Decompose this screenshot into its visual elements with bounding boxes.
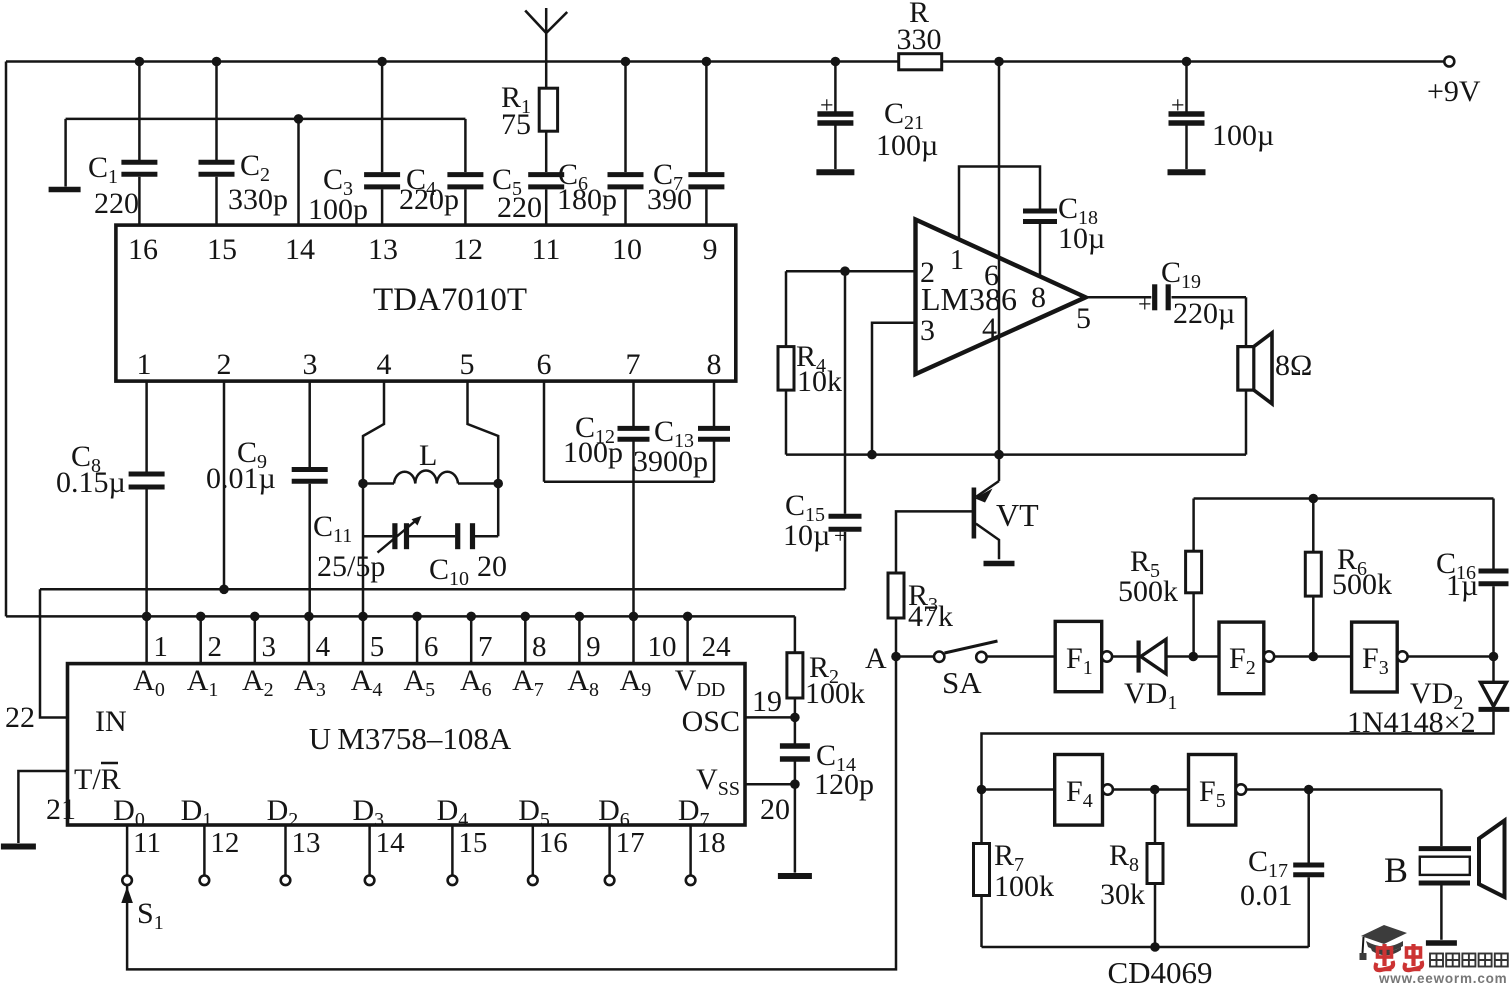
svg-text:100p: 100p (308, 193, 368, 226)
svg-text:120p: 120p (814, 768, 874, 801)
svg-text:100k: 100k (805, 677, 865, 710)
svg-text:100µ: 100µ (1212, 119, 1274, 152)
svg-text:17: 17 (616, 827, 645, 859)
svg-text:20: 20 (760, 793, 790, 826)
svg-text:220p: 220p (399, 183, 459, 216)
svg-text:7: 7 (478, 631, 493, 663)
svg-text:12: 12 (453, 233, 483, 266)
svg-text:10µ: 10µ (783, 519, 830, 552)
svg-text:2: 2 (217, 348, 232, 381)
svg-text:0.15µ: 0.15µ (56, 466, 126, 499)
svg-text:7: 7 (626, 348, 641, 381)
svg-text:220: 220 (497, 191, 542, 224)
svg-text:3: 3 (262, 631, 277, 663)
svg-text:4: 4 (982, 312, 997, 345)
svg-text:180p: 180p (557, 183, 617, 216)
svg-text:390: 390 (647, 183, 692, 216)
svg-text:330p: 330p (228, 183, 288, 216)
svg-text:500k: 500k (1118, 575, 1178, 608)
svg-text:+: + (820, 93, 834, 119)
svg-text:0.01µ: 0.01µ (206, 462, 276, 495)
svg-text:5: 5 (370, 631, 385, 663)
svg-text:3900p: 3900p (633, 445, 708, 478)
svg-text:13: 13 (368, 233, 398, 266)
svg-text:10k: 10k (797, 365, 842, 398)
svg-text:+: + (1138, 292, 1152, 318)
svg-text:6: 6 (424, 631, 439, 663)
svg-text:5: 5 (460, 348, 475, 381)
svg-text:330: 330 (897, 23, 942, 56)
svg-text:4: 4 (316, 631, 331, 663)
svg-text:22: 22 (5, 701, 35, 734)
svg-text:L: L (419, 439, 437, 472)
svg-text:220: 220 (94, 187, 139, 220)
svg-text:TDA7010T: TDA7010T (373, 282, 527, 318)
svg-text:VT: VT (996, 497, 1039, 533)
svg-text:8Ω: 8Ω (1275, 349, 1312, 382)
svg-text:100µ: 100µ (876, 129, 938, 162)
svg-text:24: 24 (702, 631, 732, 663)
svg-text:15: 15 (207, 233, 237, 266)
svg-text:1: 1 (137, 348, 152, 381)
svg-text:IN: IN (95, 705, 127, 738)
svg-text:14: 14 (376, 827, 406, 859)
svg-text:12: 12 (210, 827, 239, 859)
svg-text:8: 8 (1031, 281, 1046, 314)
svg-text:+: + (834, 523, 846, 548)
svg-text:47k: 47k (908, 600, 953, 633)
svg-text:+9V: +9V (1427, 75, 1481, 108)
svg-text:15: 15 (458, 827, 487, 859)
svg-text:18: 18 (697, 827, 726, 859)
svg-text:1: 1 (950, 245, 964, 276)
svg-text:T/R: T/R (74, 763, 121, 796)
svg-text:OSC: OSC (682, 705, 740, 738)
svg-text:1µ: 1µ (1446, 569, 1478, 602)
svg-text:16: 16 (539, 827, 568, 859)
svg-text:6: 6 (537, 348, 552, 381)
svg-text:10: 10 (612, 233, 642, 266)
svg-text:5: 5 (1076, 302, 1091, 335)
svg-text:100k: 100k (994, 870, 1054, 903)
svg-text:25/5p: 25/5p (317, 550, 385, 583)
svg-text:500k: 500k (1332, 568, 1392, 601)
svg-text:9: 9 (586, 631, 601, 663)
svg-text:0.01: 0.01 (1240, 879, 1293, 912)
svg-text:U M3758–108A: U M3758–108A (309, 721, 512, 756)
svg-text:3: 3 (303, 348, 318, 381)
svg-text:www.eeworm.com: www.eeworm.com (1378, 971, 1507, 984)
svg-text:B: B (1384, 850, 1408, 890)
svg-text:11: 11 (133, 827, 161, 859)
svg-text:10: 10 (648, 631, 677, 663)
svg-text:3: 3 (920, 314, 935, 347)
svg-text:100p: 100p (563, 436, 623, 469)
svg-text:1: 1 (153, 631, 168, 663)
svg-text:10µ: 10µ (1058, 222, 1105, 255)
svg-text:9: 9 (703, 233, 718, 266)
svg-text:20: 20 (477, 550, 507, 583)
svg-text:2: 2 (207, 631, 222, 663)
svg-text:11: 11 (532, 233, 561, 266)
svg-text:A: A (865, 642, 887, 675)
svg-text:4: 4 (377, 348, 392, 381)
svg-text:30k: 30k (1100, 878, 1145, 911)
svg-text:75: 75 (501, 108, 531, 141)
svg-text:16: 16 (128, 233, 158, 266)
svg-text:+: + (1171, 93, 1185, 119)
svg-text:21: 21 (46, 793, 76, 826)
svg-text:8: 8 (532, 631, 547, 663)
svg-text:14: 14 (285, 233, 315, 266)
svg-text:220µ: 220µ (1173, 297, 1235, 330)
svg-text:CD4069: CD4069 (1107, 955, 1212, 984)
svg-text:SA: SA (942, 665, 982, 700)
svg-text:LM386: LM386 (921, 281, 1017, 317)
svg-text:8: 8 (707, 348, 722, 381)
svg-text:13: 13 (292, 827, 321, 859)
svg-text:19: 19 (752, 685, 782, 718)
